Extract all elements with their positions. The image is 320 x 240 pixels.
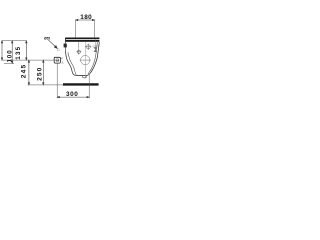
dimension line D3a bbox=[26, 41, 28, 60]
bowl inner front line bbox=[88, 42, 97, 74]
fitting slot bbox=[56, 59, 59, 61]
top rim band lower bbox=[65, 40, 99, 42]
svg-text:300: 300 bbox=[66, 91, 78, 98]
wall bracket lug bbox=[64, 44, 67, 48]
small circle inlet bbox=[76, 49, 81, 55]
180 extension lines bbox=[75, 20, 77, 38]
floor line thick bbox=[63, 83, 99, 85]
dimension line D1 bbox=[1, 41, 3, 60]
outlet stub bbox=[82, 76, 86, 78]
svg-text:245: 245 bbox=[20, 64, 27, 79]
bowl inner back line bbox=[68, 52, 77, 75]
svg-text:135: 135 bbox=[15, 46, 22, 60]
svg-text:100: 100 bbox=[7, 49, 13, 62]
fitting circle bbox=[56, 59, 59, 62]
rim left end cap bbox=[64, 38, 67, 42]
svg-text:250: 250 bbox=[37, 67, 44, 81]
extension line E3 bbox=[4, 62, 14, 64]
floor extension line thin bbox=[28, 84, 64, 86]
svg-text:180: 180 bbox=[80, 14, 92, 21]
bowtie tap symbol bbox=[92, 40, 99, 52]
big circle outlet bbox=[80, 55, 91, 64]
fitting box bbox=[54, 57, 60, 63]
300 extension line left (from fitting) bbox=[56, 63, 58, 98]
dimension line D2 bbox=[11, 41, 13, 64]
small valve circle above fitting bbox=[57, 49, 59, 51]
hanging centerline small circle bbox=[78, 42, 80, 49]
dimension line D3b (245) bbox=[28, 60, 30, 85]
svg-text:Ø55: Ø55 bbox=[44, 36, 50, 40]
dimension 180 line bbox=[76, 19, 95, 21]
dimension 300 line bbox=[57, 96, 89, 98]
top rim band upper bbox=[65, 38, 99, 40]
centerline through big circle bbox=[84, 42, 86, 77]
top extension line left block bbox=[2, 40, 27, 42]
bowl outline outer bbox=[65, 42, 99, 75]
top hole circle bbox=[85, 44, 91, 50]
leader line with arrow bbox=[48, 40, 57, 49]
extension line E2 bbox=[1, 59, 54, 61]
dimension line 250 bbox=[43, 60, 45, 85]
fitting side marks bbox=[62, 58, 64, 64]
back edge bbox=[65, 42, 67, 52]
300 extension line right bbox=[88, 75, 90, 99]
